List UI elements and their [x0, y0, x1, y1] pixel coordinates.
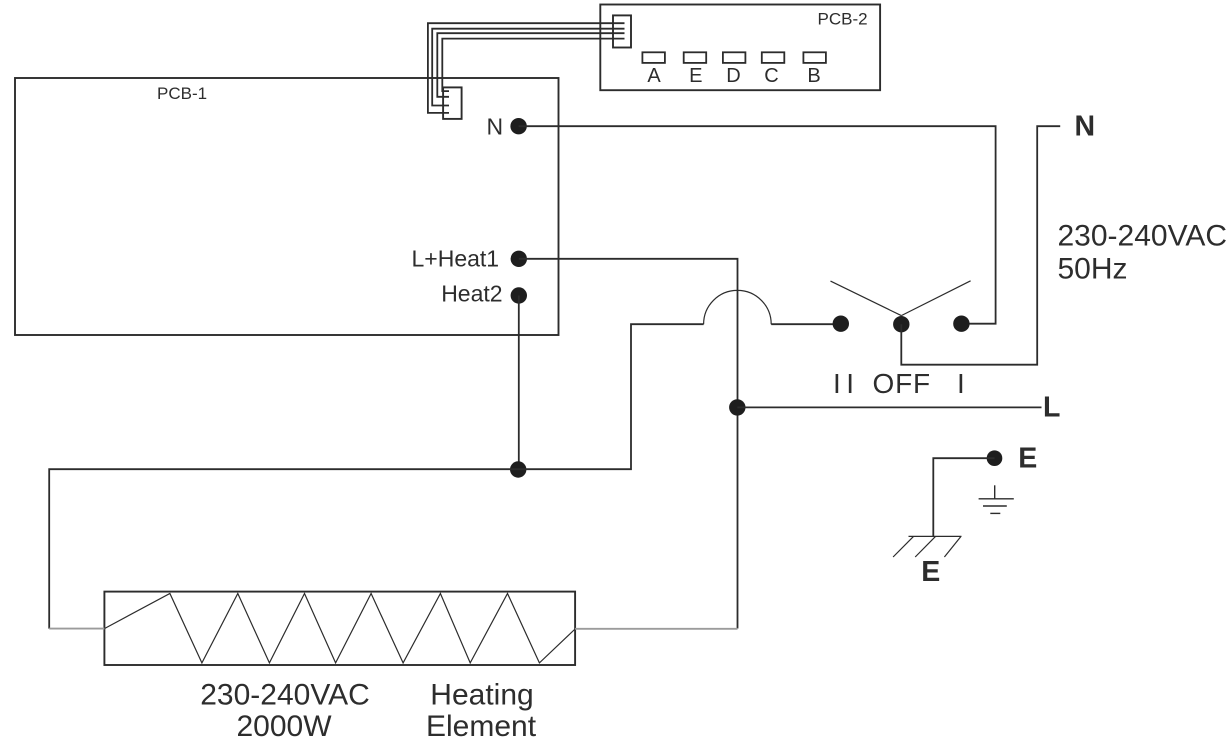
wire J2 pin2 to J1 pin3 — [432, 29, 624, 106]
wire J2 pin3 to J1 pin2 — [437, 33, 624, 97]
switch common pole dot — [893, 316, 909, 332]
wire L out — [737, 406, 1041, 408]
chassis ground hatch 2 — [915, 536, 935, 557]
svg-text:50Hz: 50Hz — [1058, 252, 1128, 285]
PCB-2 box — [600, 5, 880, 91]
wire E to chassis ground — [933, 458, 994, 536]
svg-text:B: B — [807, 65, 820, 87]
svg-text:OFF: OFF — [873, 368, 931, 399]
wire J2 pin4 to J1 pin1 — [442, 39, 624, 92]
chassis ground hatch 1 — [893, 536, 913, 557]
wire L+Heat1 down to heating element right — [519, 259, 738, 629]
svg-text:E: E — [921, 556, 940, 588]
PCB-2 connector J2 — [613, 15, 631, 47]
wire J2 pin1 to J1 pin4 — [428, 23, 625, 113]
heating element zigzag — [104, 594, 575, 663]
switch blade left arm — [831, 281, 902, 316]
connector slot B — [803, 52, 826, 63]
svg-text:II: II — [833, 368, 860, 399]
svg-text:E: E — [689, 65, 702, 87]
wire Heat2 down — [518, 296, 520, 470]
junction L node — [729, 399, 745, 415]
svg-text:L+Heat1: L+Heat1 — [412, 245, 500, 271]
svg-text:Element: Element — [426, 710, 537, 743]
svg-text:L: L — [1043, 391, 1060, 423]
switch blade right arm — [901, 281, 970, 316]
connector slot A — [642, 52, 665, 63]
heating element box — [104, 592, 575, 665]
PCB-1 box — [15, 78, 559, 335]
connector slot E — [684, 52, 707, 63]
chassis ground bar — [909, 535, 962, 537]
switch contact II dot — [833, 316, 849, 332]
terminal E dot — [987, 450, 1003, 466]
svg-text:A: A — [647, 65, 661, 87]
svg-text:D: D — [726, 65, 740, 87]
svg-text:Heating: Heating — [430, 679, 533, 712]
svg-text:C: C — [764, 65, 778, 87]
switch contact I dot — [953, 316, 969, 332]
wire gray stub element right — [575, 628, 737, 630]
earth ground bar 1 — [979, 498, 1014, 500]
svg-text:N: N — [1075, 111, 1096, 143]
wire switch pole to mains N — [901, 126, 1060, 365]
svg-text:I: I — [957, 368, 965, 399]
svg-text:Heat2: Heat2 — [441, 281, 502, 307]
chassis ground hatch 3 — [944, 536, 961, 557]
svg-text:PCB-1: PCB-1 — [157, 84, 207, 103]
wire arc to switch contact II — [771, 323, 841, 325]
svg-text:230-240VAC: 230-240VAC — [200, 679, 370, 712]
junction Heat2/element-left node — [510, 461, 526, 477]
connector slot C — [762, 52, 785, 63]
svg-text:230-240VAC: 230-240VAC — [1058, 220, 1228, 253]
svg-text:N: N — [487, 114, 504, 140]
svg-text:E: E — [1018, 442, 1037, 474]
connector slot D — [723, 52, 746, 63]
wire N terminal to switch contact I — [519, 126, 996, 324]
earth ground bar 2 — [983, 505, 1007, 507]
terminal Heat2 — [511, 287, 527, 303]
wire hop arc over L+Heat1 wire — [704, 290, 772, 324]
terminal L+Heat1 — [511, 251, 527, 267]
svg-text:2000W: 2000W — [236, 710, 332, 743]
wire element-left riser to switch contact II — [49, 324, 703, 628]
wire gray stub element left — [49, 628, 104, 630]
svg-text:PCB-2: PCB-2 — [818, 10, 868, 29]
PCB-1 connector J1 — [443, 87, 462, 119]
earth ground bar 3 — [990, 512, 1000, 514]
earth ground symbol stem — [994, 485, 996, 499]
terminal N of PCB-1 — [510, 118, 526, 134]
